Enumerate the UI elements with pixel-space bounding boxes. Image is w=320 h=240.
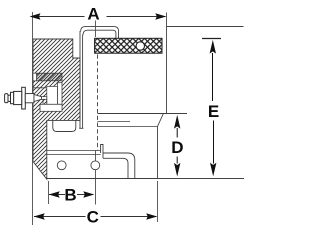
grease fitting boss [22,87,26,109]
roller top edge [167,26,244,28]
dimension A line [34,16,166,18]
dimension E shaft lower [213,121,215,164]
bracket lip inner [103,158,128,179]
dimension E tick [202,38,221,40]
seal notch white [33,73,37,81]
plate bottom edge [47,178,158,180]
plate top line 1 [47,150,101,152]
dimension C line [34,216,157,218]
dimension E down arrow [210,163,216,177]
hidden bore line dashed [97,55,99,151]
grease fitting shank [25,94,34,103]
dimension B left arrow [49,191,60,197]
bracket tab [101,145,103,159]
lube hole in band [136,42,144,50]
svg-text:B: B [64,185,76,204]
roller lower line [98,126,158,128]
bushing sleeve inner wall [82,35,84,129]
svg-text:C: C [87,207,99,226]
roller left edge [166,13,168,114]
grease channel down leg [43,99,47,104]
plate top line 2 [47,154,101,156]
bushing sleeve outer wall [79,31,81,128]
extension line left (A/C datum) [32,12,34,225]
dimension A right arrow [155,13,166,19]
knurled band crosshatch [95,38,162,53]
dimension A left arrow [30,13,41,19]
svg-text:A: A [87,5,99,24]
dimension C right arrow [146,213,157,219]
bearing cup bump below hub [53,120,76,131]
seal band dense hatch [37,73,63,81]
bracket lip outer [103,153,135,179]
hole center line upper (below A) [95,21,97,38]
lower race box [40,104,62,111]
dimension D down arrow [174,163,180,177]
grease fitting tip [5,94,8,103]
svg-text:E: E [208,102,219,121]
cap outer top line [81,27,119,39]
bearing pin strip [58,83,63,105]
roller floor line [98,113,188,115]
roller right-lower vertical [157,127,159,179]
dimension E up arrow [210,40,216,54]
svg-text:D: D [171,138,183,157]
dimension D shaft [176,128,178,164]
hub block hatched body [33,39,80,179]
grease fitting groove [8,95,11,101]
sleeve bottom edge [79,127,83,129]
base line bottom [158,178,245,180]
dimension B right arrow [83,191,94,197]
dimension C left arrow [34,213,45,219]
bolt hole right [91,161,100,170]
grease fitting ball cap [11,92,14,103]
grease cavity white [47,87,58,105]
dimension B line [49,194,93,196]
dimension E shaft upper [212,53,214,101]
grease passage taper [34,95,42,102]
roller chamfer [158,114,164,127]
dimension D up arrow [174,115,180,129]
bearing band lower edge [33,87,62,89]
extension line B left [48,181,50,204]
cap inner top line [83,30,116,38]
grease channel horizontal [42,97,47,100]
roller mid line [98,121,131,123]
bolt hole left [57,161,66,170]
hole center line lower [95,151,97,205]
grease fitting hex body [14,91,22,104]
extension line C right [157,181,159,222]
